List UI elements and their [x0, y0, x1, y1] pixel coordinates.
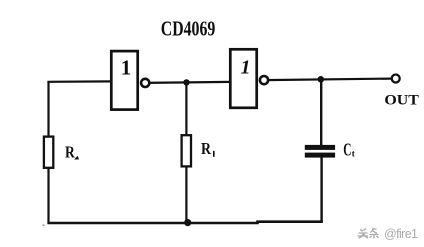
resistor Ra body [44, 137, 53, 168]
node A: junction above Ri [183, 79, 189, 85]
watermark: 头条 glyph 1 [358, 229, 369, 239]
svg-text:@fire1: @fire1 [384, 227, 418, 241]
inverter U1b output bubble [260, 76, 268, 84]
label Ri subscript [213, 151, 215, 157]
capacitor Ct top plate [305, 145, 335, 150]
speck bottom-left scan artifact [43, 225, 45, 226]
svg-text:R: R [65, 142, 75, 161]
svg-text:C: C [343, 139, 351, 159]
wire: Ri vertical from junction A down to bottom [185, 82, 187, 222]
inverter U1b body [230, 49, 256, 108]
svg-text:1: 1 [121, 56, 132, 80]
svg-text:R: R [201, 139, 212, 158]
wire: left vertical (feedback) [47, 82, 49, 223]
node C: junction bottom of Ri [184, 219, 191, 226]
inverter U1a body [111, 51, 137, 110]
svg-text:OUT: OUT [384, 93, 419, 109]
wire: Ct vertical lower (bottom plate to bottom wire) [320, 156, 322, 223]
svg-text:1: 1 [241, 56, 251, 78]
wire: bottom horizontal left segment [47, 222, 322, 223]
node B: junction above Ct [318, 76, 325, 83]
wire: Ct vertical upper (junction B to top plate) [320, 79, 322, 146]
OUT terminal circle [392, 75, 400, 83]
resistor Ri body [182, 135, 191, 166]
wire: U1a output to U1b input [145, 82, 231, 83]
watermark: 头条 glyph 2 [370, 228, 379, 239]
wire: U1b output to OUT terminal [264, 79, 391, 81]
inverter U1a output bubble [141, 79, 149, 87]
svg-text:t: t [352, 149, 355, 159]
wire: top-left horizontal to U1a input [47, 80, 111, 83]
label Ra subscript [74, 156, 79, 160]
svg-text:CD4069: CD4069 [161, 16, 216, 40]
capacitor Ct bottom plate [305, 153, 335, 158]
